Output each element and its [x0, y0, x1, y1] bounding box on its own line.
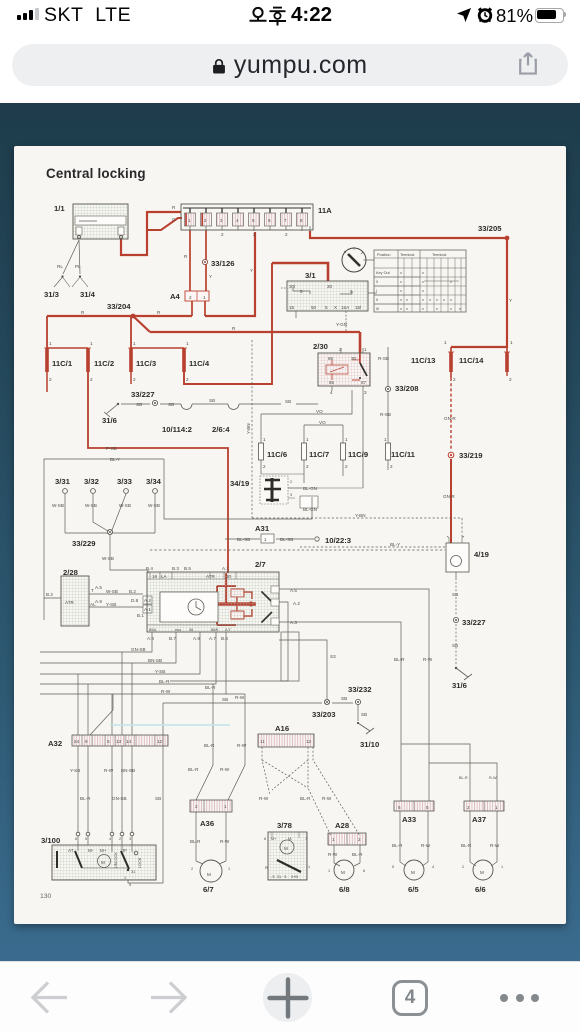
svg-text:6/8: 6/8	[339, 885, 350, 894]
svg-text:A33: A33	[402, 815, 416, 824]
svg-text:11C/4: 11C/4	[189, 359, 210, 368]
svg-text:-S: -S	[271, 875, 275, 879]
svg-text:PL: PL	[75, 264, 81, 269]
svg-text:6: 6	[363, 869, 365, 873]
svg-text:GN-SB: GN-SB	[112, 796, 127, 801]
svg-text:2: 2	[90, 377, 93, 382]
svg-text:A.9: A.9	[193, 636, 200, 641]
svg-text:1: 1	[264, 537, 267, 542]
svg-text:R: R	[232, 326, 236, 331]
svg-text:1: 1	[345, 437, 348, 442]
svg-text:BL-SB: BL-SB	[280, 537, 293, 542]
svg-text:33/204: 33/204	[107, 302, 131, 311]
svg-text:R-W: R-W	[220, 767, 230, 772]
svg-text:BN-SB: BN-SB	[121, 768, 135, 773]
svg-text:ATR: ATR	[65, 600, 75, 605]
svg-text:10/22:3: 10/22:3	[325, 536, 351, 545]
svg-text:W-SB: W-SB	[119, 503, 131, 508]
svg-text:2: 2	[191, 867, 193, 871]
svg-text:3/32: 3/32	[84, 477, 99, 486]
svg-text:G: G	[172, 217, 176, 222]
svg-text:4/19: 4/19	[474, 550, 489, 559]
svg-text:A4: A4	[170, 292, 181, 301]
svg-text:1: 1	[224, 804, 227, 809]
svg-text:P-SB: P-SB	[106, 446, 117, 451]
svg-text:3/31: 3/31	[55, 477, 71, 486]
svg-text:3+B: 3+B	[291, 875, 298, 879]
svg-text:3/78: 3/78	[277, 821, 293, 830]
svg-text:6/5: 6/5	[408, 885, 419, 894]
svg-text:2/7: 2/7	[255, 560, 266, 569]
svg-text:R-SB: R-SB	[380, 412, 391, 417]
svg-text:D.8: D.8	[131, 598, 139, 603]
svg-text:2: 2	[453, 377, 456, 382]
svg-text:3: 3	[290, 493, 292, 497]
svg-text:LOCK: LOCK	[138, 857, 142, 868]
svg-text:33/227: 33/227	[462, 618, 486, 627]
svg-text:x: x	[400, 280, 402, 284]
svg-text:x: x	[422, 289, 424, 293]
svg-text:VO: VO	[316, 409, 323, 414]
svg-text:Y-SB: Y-SB	[106, 602, 116, 607]
svg-text:R-W: R-W	[104, 768, 114, 773]
svg-text:1: 1	[384, 437, 387, 442]
svg-text:RL: RL	[57, 264, 63, 269]
svg-text:2: 2	[195, 804, 198, 809]
svg-text:11C/9: 11C/9	[348, 450, 368, 459]
svg-text:GN-R: GN-R	[444, 416, 456, 421]
svg-text:3/100: 3/100	[41, 836, 60, 845]
svg-text:A36: A36	[200, 819, 214, 828]
svg-text:11C/7: 11C/7	[309, 450, 329, 459]
svg-text:7: 7	[284, 218, 287, 223]
svg-text:BL-R: BL-R	[204, 743, 215, 748]
svg-text:x: x	[422, 271, 424, 275]
svg-text:x: x	[450, 280, 452, 284]
svg-text:30: 30	[226, 574, 232, 579]
svg-text:34/19: 34/19	[230, 479, 249, 488]
svg-text:Y-GN: Y-GN	[336, 322, 347, 327]
svg-text:x: x	[400, 298, 402, 302]
svg-text:BL-GN: BL-GN	[303, 507, 317, 512]
svg-text:5: 5	[252, 218, 255, 223]
svg-text:BL-R: BL-R	[188, 767, 199, 772]
svg-text:BL-SB: BL-SB	[237, 537, 250, 542]
svg-text:2: 2	[49, 377, 52, 382]
svg-text:W-SB: W-SB	[85, 503, 97, 508]
svg-text:M-: M-	[288, 837, 293, 841]
svg-text:A:4: A:4	[147, 636, 154, 641]
svg-text:eso: eso	[175, 628, 181, 632]
svg-text:ATR: ATR	[206, 574, 216, 579]
svg-text:B.2: B.2	[129, 589, 136, 594]
svg-text:2: 2	[467, 805, 470, 810]
svg-text:R-W: R-W	[259, 796, 269, 801]
svg-text:1: 1	[510, 340, 513, 345]
svg-text:5: 5	[85, 837, 87, 841]
svg-text:x: x	[443, 298, 445, 302]
svg-text:8: 8	[300, 218, 303, 223]
svg-text:BL-R: BL-R	[459, 776, 468, 780]
svg-text:5: 5	[325, 305, 328, 310]
svg-text:SB: SB	[136, 402, 142, 407]
svg-text:SB: SB	[452, 643, 458, 648]
svg-text:BL-R: BL-R	[352, 852, 363, 857]
svg-text:2: 2	[186, 377, 189, 382]
svg-text:A.2: A.2	[293, 601, 300, 606]
svg-text:Y-BN: Y-BN	[246, 423, 251, 434]
svg-text:M: M	[411, 870, 415, 875]
svg-text:11C/1: 11C/1	[52, 359, 73, 368]
svg-text:16: 16	[152, 574, 158, 579]
svg-text:3: 3	[129, 837, 131, 841]
svg-text:A.7: A.7	[209, 636, 216, 641]
svg-text:9: 9	[85, 739, 88, 744]
svg-text:12: 12	[306, 739, 312, 744]
svg-text:33/232: 33/232	[348, 685, 372, 694]
svg-text:33/203: 33/203	[312, 710, 336, 719]
svg-text:x: x	[459, 307, 461, 311]
svg-text:BL-Y: BL-Y	[110, 457, 120, 462]
svg-text:2/30: 2/30	[313, 342, 328, 351]
svg-text:2: 2	[390, 464, 393, 469]
svg-text:7: 7	[305, 837, 307, 841]
svg-text:5: 5	[426, 805, 429, 810]
svg-text:x: x	[406, 307, 408, 311]
svg-text:M: M	[341, 870, 345, 875]
svg-text:R-W: R-W	[220, 839, 230, 844]
svg-text:1: 1	[124, 876, 126, 880]
svg-text:2: 2	[253, 232, 256, 237]
svg-text:x: x	[450, 298, 452, 302]
svg-text:R-W: R-W	[421, 843, 431, 848]
svg-text:Y: Y	[509, 298, 512, 303]
svg-text:W-SB: W-SB	[52, 503, 64, 508]
svg-text:A.3: A.3	[290, 620, 297, 625]
svg-text:1: 1	[188, 218, 191, 223]
svg-text:6/7: 6/7	[203, 885, 214, 894]
svg-text:x: x	[422, 307, 424, 311]
svg-text:2: 2	[290, 480, 292, 484]
svg-text:R: R	[265, 866, 268, 870]
svg-text:3/34: 3/34	[146, 477, 162, 486]
svg-text:UNLOCK: UNLOCK	[114, 852, 118, 868]
svg-text:12: 12	[157, 739, 163, 744]
svg-text:11A: 11A	[318, 206, 332, 215]
svg-text:T: T	[91, 588, 94, 593]
svg-text:Terminal: Terminal	[432, 253, 447, 257]
svg-text:2: 2	[306, 464, 309, 469]
svg-text:I: I	[376, 289, 377, 293]
svg-text:11C/14: 11C/14	[459, 356, 484, 365]
svg-text:4: 4	[330, 390, 333, 395]
svg-text:M+: M+	[100, 848, 107, 853]
svg-text:13: 13	[116, 739, 122, 744]
svg-text:2: 2	[204, 218, 207, 223]
svg-text:x: x	[436, 298, 438, 302]
svg-text:S3: S3	[330, 654, 336, 659]
svg-text:M-: M-	[88, 848, 94, 853]
svg-text:15A: 15A	[341, 305, 350, 310]
svg-text:4: 4	[432, 865, 434, 869]
svg-text:3: 3	[220, 218, 223, 223]
svg-text:5: 5	[129, 883, 131, 887]
svg-text:31/6: 31/6	[452, 681, 467, 690]
svg-text:31/3: 31/3	[44, 290, 59, 299]
svg-text:31/10: 31/10	[360, 740, 379, 749]
svg-text:BL-R: BL-R	[190, 839, 201, 844]
svg-text:10/114:2: 10/114:2	[162, 425, 192, 434]
svg-text:BL-R: BL-R	[394, 657, 405, 662]
svg-text:1: 1	[328, 869, 330, 873]
svg-text:BL-GN: BL-GN	[303, 486, 317, 491]
svg-text:B.5: B.5	[184, 566, 191, 571]
svg-text:LA: LA	[161, 574, 168, 579]
svg-text:Terminal: Terminal	[400, 253, 415, 257]
svg-text:R-SB: R-SB	[378, 356, 389, 361]
svg-text:A.T: A.T	[225, 628, 232, 632]
svg-text:SB: SB	[168, 402, 174, 407]
svg-text:4: 4	[109, 837, 111, 841]
svg-text:Y-SB: Y-SB	[155, 669, 165, 674]
svg-text:2: 2	[339, 347, 342, 352]
svg-text:1: 1	[228, 867, 230, 871]
svg-text:R: R	[157, 310, 161, 315]
svg-text:5: 5	[392, 865, 394, 869]
svg-text:33/205: 33/205	[478, 224, 502, 233]
svg-text:6: 6	[264, 837, 266, 841]
svg-text:1: 1	[186, 341, 189, 346]
svg-text:1: 1	[332, 837, 335, 842]
svg-text:15l: 15l	[355, 305, 361, 310]
svg-text:2: 2	[285, 232, 288, 237]
svg-text:86: 86	[328, 356, 334, 361]
svg-text:1: 1	[49, 341, 52, 346]
svg-text:B.4: B.4	[146, 566, 153, 571]
svg-text:BL-Y: BL-Y	[390, 542, 400, 547]
svg-text:1: 1	[308, 865, 310, 869]
svg-text:AT: AT	[68, 848, 74, 853]
svg-text:2: 2	[345, 464, 348, 469]
svg-text:33/208: 33/208	[395, 384, 419, 393]
svg-text:A.1: A.1	[144, 607, 151, 612]
svg-text:14: 14	[126, 739, 132, 744]
svg-text:2/28: 2/28	[63, 568, 79, 577]
svg-text:31/6: 31/6	[102, 416, 117, 425]
svg-text:5: 5	[300, 289, 303, 294]
svg-text:BL-R: BL-R	[392, 843, 403, 848]
svg-text:11: 11	[260, 739, 265, 744]
svg-text:A.1: A.1	[222, 566, 229, 571]
svg-text:R-W: R-W	[490, 843, 500, 848]
svg-text:BL-R: BL-R	[461, 843, 472, 848]
svg-text:6: 6	[398, 805, 401, 810]
svg-text:6: 6	[75, 837, 77, 841]
svg-text:1: 1	[495, 805, 498, 810]
svg-text:R: R	[184, 254, 188, 259]
svg-text:R-W: R-W	[489, 776, 497, 780]
svg-text:Position: Position	[377, 253, 391, 257]
svg-text:x: x	[400, 289, 402, 293]
svg-text:SB: SB	[341, 696, 347, 701]
svg-text:33/219: 33/219	[459, 451, 483, 460]
svg-text:2: 2	[509, 377, 512, 382]
svg-text:2: 2	[263, 464, 266, 469]
svg-text:0: 0	[376, 280, 378, 284]
svg-text:A37: A37	[472, 815, 486, 824]
svg-text:1: 1	[444, 340, 447, 345]
svg-text:M+: M+	[271, 837, 277, 841]
svg-text:R-W: R-W	[328, 852, 338, 857]
svg-text:GN-SB: GN-SB	[131, 647, 146, 652]
svg-text:85: 85	[329, 380, 335, 385]
svg-text:x: x	[400, 271, 402, 275]
svg-text:1: 1	[90, 341, 93, 346]
svg-text:BL-R: BL-R	[80, 796, 91, 801]
svg-text:30l: 30l	[289, 284, 295, 289]
svg-text:2: 2	[358, 837, 361, 842]
svg-text:1: 1	[306, 437, 309, 442]
svg-text:x: x	[450, 307, 452, 311]
svg-text:x: x	[400, 307, 402, 311]
svg-text:2: 2	[462, 865, 464, 869]
svg-text:31: 31	[277, 875, 281, 879]
svg-text:2: 2	[221, 232, 224, 237]
svg-text:B.2: B.2	[46, 592, 53, 597]
svg-text:SB: SB	[452, 592, 458, 597]
svg-text:M: M	[480, 870, 484, 875]
svg-text:87: 87	[361, 380, 367, 385]
svg-text:GN-R: GN-R	[443, 494, 455, 499]
svg-text:III: III	[376, 307, 379, 311]
svg-text:B.3: B.3	[172, 566, 179, 571]
svg-text:x: x	[406, 298, 408, 302]
svg-text:A28: A28	[335, 821, 350, 830]
svg-text:33/229: 33/229	[72, 539, 96, 548]
svg-text:5: 5	[350, 289, 353, 294]
svg-text:15: 15	[289, 305, 295, 310]
svg-text:A.2: A.2	[144, 598, 151, 603]
svg-text:R-W: R-W	[237, 743, 247, 748]
svg-text:B6R: B6R	[211, 628, 219, 632]
svg-text:A.5: A.5	[95, 585, 102, 590]
svg-text:B.6: B.6	[221, 636, 228, 641]
svg-text:R: R	[81, 310, 85, 315]
svg-text:x: x	[422, 298, 424, 302]
svg-text:IF: IF	[123, 848, 127, 853]
svg-text:Central locking: Central locking	[46, 166, 146, 181]
svg-text:Y: Y	[250, 268, 253, 273]
svg-text:50: 50	[311, 305, 317, 310]
svg-text:X: X	[334, 305, 337, 310]
svg-text:x: x	[422, 280, 424, 284]
svg-text:3/1: 3/1	[305, 271, 316, 280]
svg-text:11C/13: 11C/13	[411, 356, 435, 365]
svg-text:x: x	[436, 307, 438, 311]
svg-text:W-SB: W-SB	[148, 503, 160, 508]
svg-text:B.7: B.7	[169, 636, 176, 641]
svg-text:2/6:4: 2/6:4	[212, 425, 230, 434]
svg-text:33/227: 33/227	[131, 390, 155, 399]
svg-text:2: 2	[119, 837, 121, 841]
svg-text:30: 30	[327, 284, 333, 289]
svg-text:BL-R: BL-R	[159, 679, 170, 684]
svg-text:130: 130	[40, 893, 52, 900]
svg-text:SB: SB	[285, 399, 291, 404]
svg-text:R-W: R-W	[161, 689, 171, 694]
svg-text:6: 6	[268, 218, 271, 223]
svg-text:x: x	[429, 298, 431, 302]
svg-text:2: 2	[133, 377, 136, 382]
svg-text:BL-R: BL-R	[300, 796, 311, 801]
svg-text:A16: A16	[275, 724, 289, 733]
svg-text:31/4: 31/4	[80, 290, 96, 299]
svg-text:2: 2	[189, 295, 192, 300]
svg-text:11C/11: 11C/11	[391, 450, 416, 459]
svg-text:SB: SB	[155, 796, 161, 801]
svg-text:W-SB: W-SB	[102, 556, 114, 561]
svg-text:R-W: R-W	[235, 695, 245, 700]
svg-text:R: R	[172, 205, 176, 210]
svg-text:R-W: R-W	[423, 657, 433, 662]
svg-text:SB: SB	[222, 697, 228, 702]
svg-text:A31: A31	[255, 524, 270, 533]
svg-text:Y-BN: Y-BN	[355, 513, 366, 518]
svg-text:A.5: A.5	[290, 588, 297, 593]
svg-text:1: 1	[501, 865, 503, 869]
svg-text:R-W: R-W	[322, 796, 332, 801]
svg-text:31: 31	[131, 870, 135, 874]
svg-text:II: II	[376, 298, 378, 302]
svg-text:24: 24	[74, 739, 80, 744]
svg-text:M: M	[284, 846, 288, 851]
svg-text:M: M	[101, 860, 105, 865]
svg-text:30: 30	[351, 356, 357, 361]
svg-text:BN-SB: BN-SB	[148, 658, 162, 663]
svg-text:6/6: 6/6	[475, 885, 486, 894]
svg-text:11C/2: 11C/2	[94, 359, 114, 368]
svg-text:1: 1	[133, 341, 136, 346]
svg-text:11C/3: 11C/3	[136, 359, 156, 368]
svg-text:SB: SB	[361, 712, 367, 717]
svg-text:11C/6: 11C/6	[267, 450, 287, 459]
svg-text:36: 36	[189, 628, 193, 632]
svg-text:A32: A32	[48, 739, 62, 748]
svg-text:1: 1	[364, 347, 367, 352]
svg-text:1: 1	[263, 437, 266, 442]
svg-text:Y: Y	[209, 274, 212, 279]
svg-text:VO: VO	[319, 420, 326, 425]
svg-text:3/33: 3/33	[117, 477, 132, 486]
svg-text:33/126: 33/126	[211, 259, 235, 268]
svg-text:SB: SB	[209, 398, 215, 403]
svg-text:Key Out: Key Out	[376, 271, 391, 275]
svg-text:B.1: B.1	[137, 613, 144, 618]
svg-text:BL-R: BL-R	[205, 685, 216, 690]
svg-text:M: M	[207, 872, 211, 877]
svg-text:Y-SB: Y-SB	[70, 768, 80, 773]
svg-text:3: 3	[364, 390, 367, 395]
svg-text:1: 1	[203, 295, 206, 300]
svg-text:4: 4	[236, 218, 239, 223]
svg-text:5: 5	[107, 739, 110, 744]
svg-text:1/1: 1/1	[54, 204, 65, 213]
svg-text:B5A: B5A	[149, 628, 157, 632]
svg-text:A.9: A.9	[95, 599, 102, 604]
svg-text:W-SB: W-SB	[106, 589, 118, 594]
